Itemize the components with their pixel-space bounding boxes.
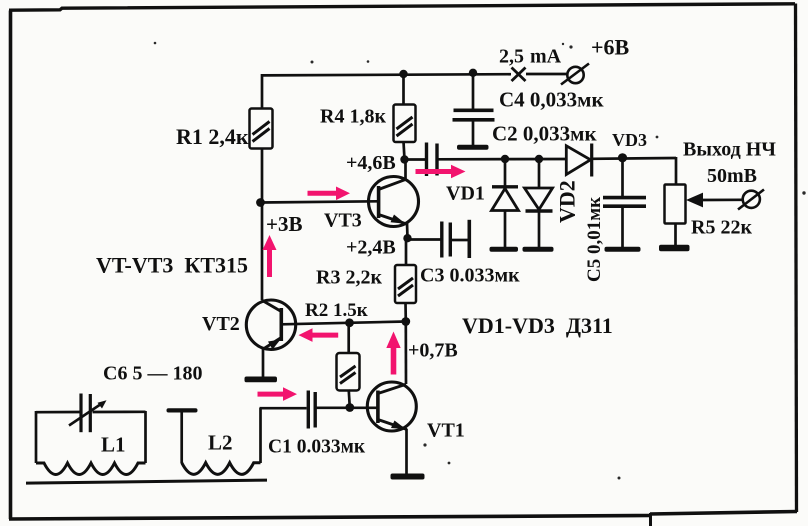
svg-text:50mB: 50mB xyxy=(707,165,757,187)
svg-text:R5 22к: R5 22к xyxy=(691,217,752,239)
svg-text:C5 0,01мк: C5 0,01мк xyxy=(584,197,605,282)
svg-text:C2 0,033мк: C2 0,033мк xyxy=(492,122,597,146)
svg-text:VD3: VD3 xyxy=(612,130,647,150)
svg-text:L1: L1 xyxy=(101,433,126,457)
svg-text:VD2: VD2 xyxy=(555,180,580,223)
svg-text:VD1-VD3 Д311: VD1-VD3 Д311 xyxy=(462,313,613,338)
svg-text:C4 0,033мк: C4 0,033мк xyxy=(499,88,604,112)
svg-text:+2,4В: +2,4В xyxy=(346,237,396,259)
svg-text:C1 0.033мк: C1 0.033мк xyxy=(268,437,366,458)
svg-text:VD1: VD1 xyxy=(446,183,485,205)
svg-text:2,5mA: 2,5mA xyxy=(499,46,562,68)
svg-text:C6 5 — 180: C6 5 — 180 xyxy=(103,363,202,385)
svg-text:VT2: VT2 xyxy=(202,313,240,335)
svg-text:VT1: VT1 xyxy=(427,420,465,442)
svg-text:+3В: +3В xyxy=(266,212,302,236)
svg-text:+4,6В: +4,6В xyxy=(346,152,396,174)
svg-text:R1 2,4к: R1 2,4к xyxy=(176,124,249,149)
svg-text:R2 1.5к: R2 1.5к xyxy=(305,300,368,321)
svg-text:Выход НЧ: Выход НЧ xyxy=(683,139,776,161)
svg-text:+6В: +6В xyxy=(591,35,630,60)
svg-text:L2: L2 xyxy=(208,431,233,455)
svg-text:+0,7В: +0,7В xyxy=(408,340,458,362)
svg-text:C3 0.033мк: C3 0.033мк xyxy=(420,265,520,287)
svg-text:R3 2,2к: R3 2,2к xyxy=(316,267,382,289)
svg-text:R4 1,8к: R4 1,8к xyxy=(320,106,386,128)
svg-text:VT3: VT3 xyxy=(324,210,362,232)
svg-text:VT-VT3 КТ315: VT-VT3 КТ315 xyxy=(96,253,248,278)
